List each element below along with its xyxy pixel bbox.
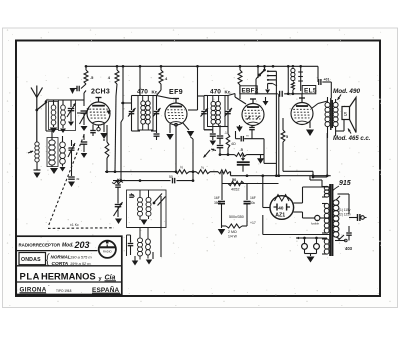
coil L5 grid choke: [291, 68, 295, 72]
EL3 cathode to bus: [283, 170, 313, 172]
svg-text:Mod. 490: Mod. 490: [333, 88, 360, 95]
wire drop x=197 (EF9 plate): [197, 66, 199, 96]
antenna coil L1: [35, 142, 39, 146]
capacitor grid cap 2CH3: [81, 84, 86, 89]
svg-text:(1) 115v: (1) 115v: [339, 208, 351, 212]
svg-text:CORTA: CORTA: [52, 261, 69, 267]
ground under L6: [141, 220, 148, 226]
speaker LS: [342, 107, 350, 120]
wire diode line2: [220, 154, 235, 156]
svg-text:403: 403: [345, 246, 353, 251]
osc box bottom wire: [127, 227, 162, 229]
ground under contacts: [267, 84, 269, 90]
T4 winding bottom left: [324, 239, 329, 244]
switch S2 (tone): [264, 66, 266, 69]
svg-text:Mod. 465 c.c.: Mod. 465 c.c.: [333, 136, 371, 142]
svg-text:19½ a 52 m.: 19½ a 52 m.: [70, 261, 92, 266]
resistor R7: [235, 153, 247, 157]
AZ1 wiring: [262, 176, 264, 208]
svg-text:HERMANOS: HERMANOS: [41, 270, 96, 281]
tube V1 2CH3: [87, 102, 110, 125]
arrow at 2CH3 side: [107, 111, 112, 115]
tube V2 EF9: [165, 103, 187, 125]
svg-text:¼: ¼: [201, 166, 204, 170]
oscillator box: [127, 190, 167, 228]
IFT2 trimmer right: [227, 96, 229, 111]
oscillator coil L7: [146, 197, 151, 202]
coil L3: [54, 99, 64, 101]
IF transformer T1: [138, 96, 153, 131]
wire link row: [45, 104, 47, 131]
resistor R4 (EBF2 screen): [239, 66, 241, 70]
tuning gang capacitor CV1: [71, 99, 84, 101]
capacitor C12 16uF: [221, 184, 223, 201]
svg-text:5: 5: [344, 112, 347, 118]
resistor R9: [196, 170, 210, 174]
capacitor C8 padder: [172, 178, 174, 184]
ground under L4: [50, 168, 58, 174]
box around L2: [49, 102, 59, 130]
resistor R10: [218, 170, 230, 174]
brace: [47, 254, 50, 267]
svg-text:½: ½: [180, 166, 183, 170]
mains box: [338, 193, 350, 195]
svg-text:4052: 4052: [231, 188, 239, 192]
wire x=115 down: [115, 96, 116, 172]
ondas box: [19, 253, 46, 265]
ground under C12: [218, 229, 226, 235]
svg-text:PLA: PLA: [20, 270, 41, 281]
OT secondary wires: [327, 131, 329, 138]
osc lower coil L8: [138, 238, 143, 243]
svg-text:+01: +01: [324, 78, 330, 82]
capacitor C14: [348, 226, 350, 232]
resistor R13 bleeder: [222, 225, 226, 227]
osc lower cap: [130, 235, 132, 243]
resistor 2CH3 cathode to bus2: [106, 125, 108, 142]
wire drop x=193: [192, 139, 194, 181]
svg-text:EBF2: EBF2: [242, 87, 259, 94]
ground under L2: [50, 128, 58, 134]
svg-text:2CH3: 2CH3: [91, 89, 110, 96]
svg-text:ESPAÑA: ESPAÑA: [92, 285, 120, 294]
svg-text:fusible: fusible: [311, 222, 320, 226]
svg-text:49: 49: [76, 177, 80, 181]
osc right vertical: [160, 196, 162, 257]
output transformer T3: [330, 98, 332, 130]
svg-text:EL5: EL5: [304, 87, 317, 94]
ground under EBF2: [257, 158, 264, 164]
mains switch S4: [335, 240, 346, 242]
IF transformer T2: [208, 96, 226, 127]
capacitor C7 coupling: [242, 155, 244, 160]
svg-text:915: 915: [339, 180, 351, 187]
wire B+ vertical right: [326, 133, 328, 177]
box around L4: [47, 138, 58, 167]
svg-text:50c: 50c: [250, 201, 256, 205]
svg-text:16F: 16F: [250, 196, 256, 200]
coil L4b: [60, 142, 66, 148]
EBF2 bottom network: [204, 129, 213, 131]
svg-text:.1: .1: [224, 131, 227, 135]
svg-text:203: 203: [74, 240, 90, 250]
EF9 cathode pins: [169, 124, 171, 133]
svg-text:TIPO 1918: TIPO 1918: [56, 289, 72, 293]
wire bus2 mid2: [210, 171, 218, 173]
svg-text:EF9: EF9: [169, 89, 183, 96]
svg-text:ONDAS: ONDAS: [21, 257, 41, 263]
wire drop x=258: [257, 66, 259, 78]
wire B+ to output transformer: [317, 66, 319, 79]
oscillator tuning cap CV2: [117, 196, 119, 204]
wire drop to IFT1: [139, 66, 141, 95]
svg-text:4Ω: 4Ω: [231, 142, 236, 146]
svg-text:100: 100: [117, 178, 122, 182]
title block frame: [16, 236, 122, 294]
svg-text:50: 50: [169, 175, 173, 179]
svg-text:350v: 350v: [214, 201, 221, 205]
ground under EL3: [309, 121, 311, 128]
capacitor EBF2 pin: [251, 126, 253, 128]
resistor R3 (IFT1 feed): [160, 66, 162, 70]
lamp ground: [304, 249, 306, 253]
svg-text:Kc.: Kc.: [152, 90, 159, 95]
border frame: [16, 41, 380, 297]
EBF2 diode plates: [247, 116, 251, 120]
volume pot arrow: [204, 150, 211, 158]
wire x=121 down: [120, 122, 122, 181]
capacitor C2: [83, 134, 85, 140]
wire lamp feed: [296, 237, 305, 239]
gang line (dashed): [48, 135, 84, 227]
EL3 cathode resistor: [282, 118, 284, 130]
IFT2 trimmer left: [203, 96, 205, 111]
resistor R2: [116, 66, 118, 70]
antenna: [31, 88, 37, 98]
mains connector: [349, 217, 357, 219]
trimmer CT2: [71, 140, 73, 146]
wire oscillator top line: [113, 180, 171, 182]
oscillator switch S3: [154, 194, 162, 203]
tube V4 EL3: [291, 103, 313, 125]
capacitor C11 (.01): [318, 79, 320, 85]
coil L4 low band: [49, 140, 55, 145]
osc lower coil L9: [146, 239, 151, 245]
svg-text:Cía: Cía: [105, 274, 116, 281]
svg-text:16F: 16F: [214, 196, 220, 200]
svg-text:RADIORRECEPTOR: RADIORRECEPTOR: [19, 242, 61, 247]
capacitor trim osc: [131, 194, 135, 197]
box around L3: [59, 100, 76, 131]
contact stack right: [300, 68, 302, 92]
svg-text:RADIO: RADIO: [103, 250, 112, 254]
wire filter line: [222, 183, 279, 185]
resistor R8: [175, 170, 189, 174]
wire bus2 right: [230, 171, 231, 173]
wire diode line1: [236, 138, 241, 140]
wire bus2 left: [105, 171, 175, 173]
grounds under lower coils: [132, 261, 139, 266]
T4 winding mid left: [324, 203, 329, 208]
resistor R11 field coil: [228, 181, 244, 185]
svg-text:Kc.: Kc.: [225, 90, 232, 95]
wire to EL3 link: [263, 155, 265, 164]
wire T4 connections: [321, 180, 323, 187]
svg-text:+17: +17: [250, 221, 256, 225]
ground under 2CH3: [100, 133, 108, 139]
logo circle: [99, 241, 116, 258]
wire bus2b: [231, 175, 331, 177]
svg-text:40: 40: [278, 206, 284, 211]
svg-text:AZ1: AZ1: [275, 213, 285, 219]
svg-text:1/4 W: 1/4 W: [228, 235, 238, 239]
resistor R osc 100: [112, 181, 123, 184]
capacitor C5 under EF9: [212, 130, 214, 133]
2CH3 cathode parts: [92, 125, 94, 131]
tube V3 EBF2: [242, 104, 264, 126]
svg-text:2 MΩ: 2 MΩ: [228, 230, 237, 234]
wire drop x=288: [287, 66, 289, 94]
wire IFT1 to EF9 grid: [157, 96, 171, 99]
junction dots bus2: [246, 174, 249, 177]
capacitor C9 osc grid: [117, 181, 119, 184]
trimmer capacitor CT1: [63, 99, 71, 101]
wire EL3 plate to OT: [312, 104, 319, 109]
switch contact stack: [268, 70, 277, 72]
svg-text:Mod.: Mod.: [62, 242, 74, 248]
ground EBF2 pin: [239, 125, 241, 127]
capacitor C13 16uF: [246, 184, 248, 201]
pilot lamp P2: [316, 238, 318, 244]
resistor R1 (screen feed 2CH3): [85, 66, 87, 70]
ground under L1: [36, 162, 38, 170]
T4 winding top left: [324, 186, 329, 190]
wire top B+ bus: [86, 65, 318, 67]
oscillator coil L6: [138, 197, 143, 202]
junction dots on top bus: [85, 65, 88, 68]
svg-text:500v/350: 500v/350: [229, 215, 244, 219]
wire drop x=123: [122, 66, 124, 119]
2CH3 grid wire: [77, 112, 87, 114]
svg-text:5: 5: [286, 135, 288, 139]
svg-text:(2) 125v: (2) 125v: [339, 213, 351, 217]
svg-text:±1 Kc: ±1 Kc: [70, 223, 79, 227]
wire tone line to EL3 grid: [255, 93, 278, 95]
tube V5 AZ1: [270, 196, 294, 220]
power transformer T4 core: [329, 184, 331, 256]
wire IFT2 to EBF2 grid top: [228, 94, 235, 96]
svg-text:470: 470: [137, 89, 148, 96]
svg-text:470: 470: [210, 89, 221, 96]
svg-text:NORMAL: NORMAL: [51, 254, 71, 259]
coil L2: [45, 100, 47, 104]
svg-text:50: 50: [232, 178, 236, 182]
resistor R7a grid leak: [227, 127, 229, 135]
band switch S1: [35, 109, 38, 112]
svg-text:190 a 575 m: 190 a 575 m: [70, 254, 92, 259]
IFT1 trimmer right: [156, 96, 158, 111]
wire feed lines to rectifier: [275, 80, 277, 176]
T4 secondary right: [333, 200, 339, 206]
fuse lamp: [315, 215, 320, 220]
wire input top: [45, 100, 47, 102]
pilot lamp P1: [304, 238, 306, 244]
ground right of EBF2 top: [263, 101, 269, 106]
IFT1 trimmer left: [131, 96, 133, 111]
wire bus2 mid: [189, 171, 196, 173]
